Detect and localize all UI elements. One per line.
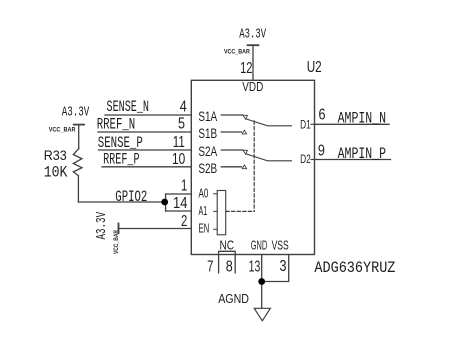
svg-text:2: 2 — [181, 213, 187, 230]
wire pin3 VSS down — [262, 255, 289, 282]
wire pin11 SENSE_P — [99, 149, 192, 151]
junction dot GPIO2/A0/A1 — [161, 199, 168, 206]
svg-text:GPIO2: GPIO2 — [115, 188, 147, 206]
wire pin13 GND down — [261, 255, 263, 309]
dashed control line vertical — [253, 121, 255, 211]
svg-text:ADG636YRUZ: ADG636YRUZ — [314, 259, 395, 277]
svg-text:6: 6 — [319, 106, 326, 123]
wire vertical joining pin1 and pin14 — [165, 194, 167, 211]
svg-text:A0: A0 — [199, 186, 209, 201]
svg-text:A3.3V: A3.3V — [239, 26, 266, 42]
svg-text:VCC_BAR: VCC_BAR — [113, 230, 120, 254]
junction dot GND/VSS — [258, 278, 265, 285]
svg-text:13: 13 — [249, 258, 261, 275]
svg-text:4: 4 — [180, 98, 187, 115]
svg-text:10K: 10K — [44, 163, 68, 181]
svg-text:AMPIN_N: AMPIN_N — [338, 110, 387, 128]
svg-text:RREF_N: RREF_N — [97, 116, 136, 134]
svg-text:RREF_P: RREF_P — [103, 151, 140, 169]
svg-text:GND: GND — [251, 237, 268, 252]
ground symbol AGND triangle — [254, 308, 270, 321]
svg-text:SENSE_P: SENSE_P — [98, 134, 143, 152]
svg-text:3: 3 — [280, 258, 287, 275]
svg-text:VCC_BAR: VCC_BAR — [49, 126, 76, 133]
wire pin9 AMPIN_P — [315, 159, 391, 161]
wire GPIO2 net — [78, 201, 165, 203]
svg-text:SENSE_N: SENSE_N — [107, 98, 150, 116]
svg-text:A3.3V: A3.3V — [62, 105, 90, 121]
svg-text:S1A: S1A — [198, 108, 217, 124]
dashed control line horizontal to A-block — [226, 210, 254, 212]
svg-text:A1: A1 — [199, 203, 208, 218]
resistor R33 zigzag — [73, 149, 82, 176]
tick A1 — [214, 210, 218, 212]
svg-text:U2: U2 — [307, 59, 322, 76]
wire pin10 RREF_P — [102, 166, 191, 168]
switch S2B stub — [221, 166, 241, 168]
svg-text:D2: D2 — [300, 152, 311, 166]
wire pin5 RREF_N — [98, 131, 191, 133]
wire pin12 VDD stem — [252, 45, 254, 80]
svg-text:S1B: S1B — [198, 125, 217, 141]
svg-text:S2B: S2B — [198, 160, 217, 176]
svg-text:D1: D1 — [300, 118, 311, 132]
svg-text:A3.3V: A3.3V — [94, 212, 110, 240]
svg-text:VDD: VDD — [242, 79, 263, 94]
A0 A1 EN decoder block — [217, 191, 226, 235]
svg-text:VCC_BAR: VCC_BAR — [224, 49, 250, 56]
wire pin4 SENSE_N — [105, 114, 191, 116]
op-amp U2 chip body ADG636 — [191, 80, 314, 254]
svg-text:11: 11 — [173, 134, 185, 151]
svg-text:10: 10 — [172, 151, 185, 168]
svg-text:7: 7 — [207, 258, 213, 275]
svg-text:S2A: S2A — [198, 143, 217, 159]
svg-text:8: 8 — [226, 258, 233, 275]
svg-text:AMPIN_P: AMPIN_P — [338, 145, 387, 163]
svg-text:AGND: AGND — [218, 292, 249, 306]
svg-text:9: 9 — [318, 142, 325, 159]
tick A0 — [214, 193, 218, 195]
svg-text:5: 5 — [178, 116, 185, 133]
tick D2 pin — [311, 159, 315, 161]
power bar VCC_BAR for R33 — [74, 124, 84, 126]
switch S2A stub — [221, 149, 243, 151]
switch 2 contact A triangle — [243, 150, 248, 154]
switch 2 contact B triangle — [242, 165, 246, 169]
switch 1 arm to D1 — [246, 119, 292, 126]
switch 1 contact B triangle — [242, 130, 246, 134]
svg-text:R33: R33 — [44, 147, 67, 163]
wire resistor top lead — [78, 125, 80, 149]
wire pin2 EN — [119, 228, 192, 230]
switch 1 contact A triangle — [243, 115, 248, 119]
power bar VCC_BAR left (for EN) — [118, 224, 120, 234]
switch S1B stub — [221, 131, 241, 133]
tick D1 pin — [311, 123, 315, 125]
NC tie bracket pins 7 8 — [219, 251, 236, 273]
wire resistor bottom lead to GPIO2 — [77, 176, 79, 202]
svg-text:12: 12 — [240, 60, 252, 77]
svg-text:VSS: VSS — [272, 237, 289, 252]
wire pin1 A0 — [166, 193, 192, 195]
tick EN — [214, 228, 218, 230]
svg-text:NC: NC — [220, 238, 235, 252]
wire pin14 A1 — [166, 210, 192, 212]
power bar VCC_BAR top — [248, 44, 259, 46]
svg-text:14: 14 — [173, 195, 187, 212]
svg-text:1: 1 — [181, 177, 187, 194]
switch 2 arm to D2 — [246, 154, 292, 161]
svg-text:EN: EN — [199, 221, 210, 236]
wire pin6 AMPIN_N — [315, 123, 390, 125]
switch S1A stub — [221, 114, 243, 116]
